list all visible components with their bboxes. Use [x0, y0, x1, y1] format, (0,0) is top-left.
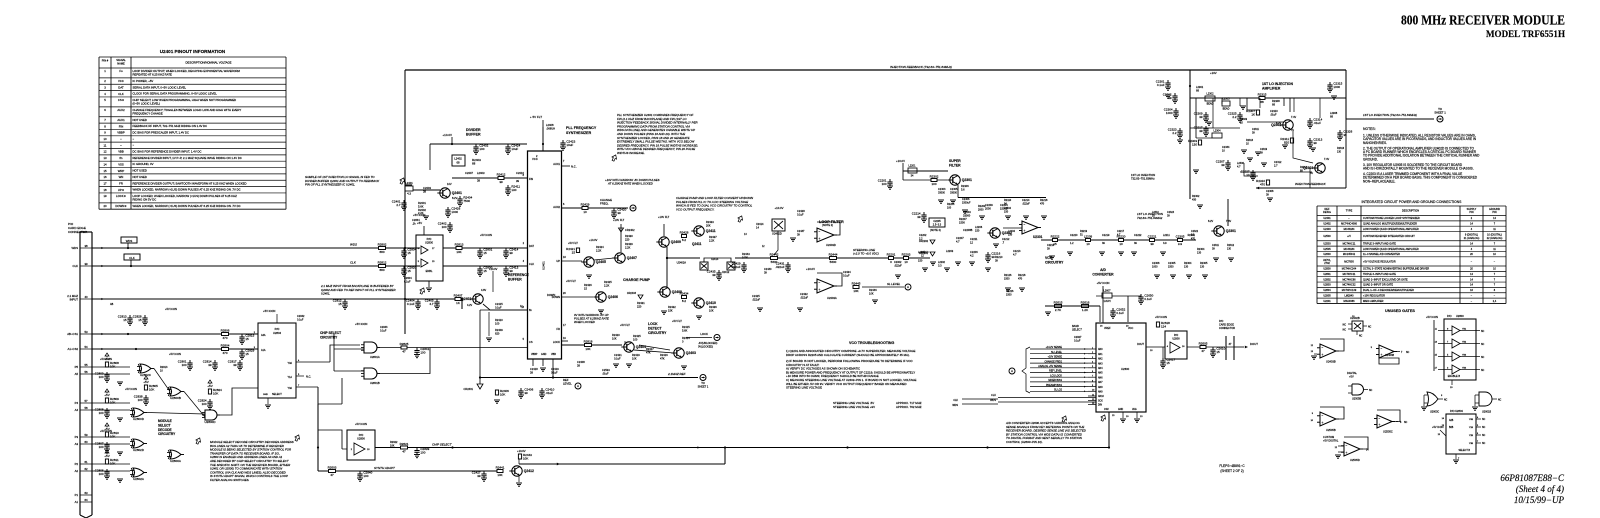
svg-text:CIRCUITRY: CIRCUITRY: [320, 335, 338, 339]
svg-text:100: 100: [99, 472, 104, 476]
svg-text:X2412: X2412: [722, 271, 730, 274]
svg-text:APPROX. 762 MHZ: APPROX. 762 MHZ: [896, 405, 922, 409]
svg-text:L2401: L2401: [405, 181, 413, 185]
svg-text:C2418: C2418: [530, 367, 538, 371]
svg-text:2.7: 2.7: [1274, 164, 1278, 167]
svg-text:150: 150: [1008, 233, 1013, 236]
svg-text:4.8V: 4.8V: [481, 289, 486, 292]
svg-text:5.6K: 5.6K: [682, 328, 688, 332]
svg-text:15: 15: [123, 318, 127, 322]
svg-text:+5V DIGITAL: +5V DIGITAL: [1323, 439, 1339, 443]
svg-text:AMPLIFIER: AMPLIFIER: [1262, 87, 1281, 91]
svg-text:U2401: U2401: [1323, 217, 1331, 220]
svg-text:C2432: C2432: [800, 292, 808, 296]
svg-text:58: 58: [84, 406, 88, 410]
svg-text:.01uF: .01uF: [602, 372, 609, 376]
svg-text:VBBP: VBBP: [117, 131, 125, 135]
svg-text:−: −: [819, 281, 821, 285]
svg-text:UP: UP: [556, 259, 560, 263]
svg-text:TRIPLE 3−INPUT AND GATE: TRIPLE 3−INPUT AND GATE: [1363, 273, 1396, 276]
svg-text:R2424: R2424: [596, 245, 604, 249]
svg-text:100: 100: [442, 225, 447, 229]
svg-text:SELECT B: SELECT B: [1458, 449, 1470, 452]
svg-text:R2203: R2203: [902, 252, 911, 256]
svg-text:P/O: P/O: [275, 327, 280, 331]
svg-text:(0−5V LOGIC LEVEL): (0−5V LOGIC LEVEL): [133, 101, 161, 105]
svg-text:DOWN∗: DOWN∗: [115, 204, 127, 208]
svg-text:U2403: U2403: [1323, 228, 1331, 231]
svg-text:2.2K: 2.2K: [604, 283, 610, 287]
svg-text:A2B: A2B: [1449, 419, 1454, 422]
svg-text:A5: A5: [75, 372, 79, 376]
svg-text:QUAD ANALOG MULTIPLEX/DEMULTIP: QUAD ANALOG MULTIPLEX/DEMULTIPLEXER: [1363, 223, 1417, 226]
svg-text:+10.0V: +10.0V: [442, 133, 452, 137]
svg-text:R2207: R2207: [959, 217, 967, 221]
svg-text:NC: NC: [1406, 352, 1410, 354]
svg-text:+5V FLT: +5V FLT: [620, 323, 630, 327]
svg-text:PLL FREQUENCY: PLL FREQUENCY: [566, 126, 597, 130]
svg-text:4.7: 4.7: [429, 302, 434, 306]
svg-text:A4A: A4A: [261, 334, 266, 337]
svg-text:C2415: C2415: [495, 302, 503, 306]
svg-text:.022uF: .022uF: [894, 264, 902, 267]
svg-text:SELECT: SELECT: [158, 423, 171, 427]
svg-text:U2800: U2800: [425, 240, 433, 244]
svg-text:CHIP SELECT: CHIP SELECT: [432, 443, 453, 447]
svg-text:L2408: L2408: [546, 123, 554, 127]
svg-text:U2803: U2803: [1323, 284, 1331, 287]
svg-text:GROUND.: GROUND.: [1363, 157, 1378, 161]
svg-text:NC: NC: [1343, 324, 1347, 326]
svg-text:REPEATED AT 6.25 KHZ RATE: REPEATED AT 6.25 KHZ RATE: [133, 72, 173, 76]
svg-text:39: 39: [1343, 133, 1347, 137]
svg-text:11: 11: [104, 143, 107, 147]
svg-text:P/O: P/O: [427, 237, 432, 241]
svg-text:13: 13: [103, 156, 107, 160]
svg-text:P/O U2804: P/O U2804: [1450, 409, 1463, 413]
svg-text:U2803C: U2803C: [1430, 411, 1439, 414]
svg-text:CLK: CLK: [991, 394, 996, 397]
svg-text:4.3: 4.3: [407, 192, 411, 196]
svg-text:59: 59: [84, 433, 88, 437]
svg-text:+: +: [1322, 421, 1324, 425]
svg-text:1000: 1000: [1152, 265, 1158, 268]
svg-text:INTEGRATED CIRCUIT POWER AN: INTEGRATED CIRCUIT POWER AND GROUND CONN…: [1362, 200, 1463, 204]
svg-text:DC BIAS FOR PRESCALER INPUT, 1: DC BIAS FOR PRESCALER INPUT, 1.4V DC: [133, 130, 190, 134]
svg-text:CONNECTOR: CONNECTOR: [1219, 327, 1235, 330]
svg-text:AB: AB: [110, 303, 114, 306]
svg-text:C2533: C2533: [602, 368, 610, 372]
svg-text:2.2K: 2.2K: [625, 245, 631, 249]
svg-text:100: 100: [947, 206, 952, 209]
svg-text:U2600: U2600: [1323, 253, 1331, 256]
svg-text:(+2.0 TO +8.0 VDC): (+2.0 TO +8.0 VDC): [853, 252, 879, 256]
svg-text:1.8UH: 1.8UH: [1103, 300, 1110, 303]
svg-text:AB−CS1: AB−CS1: [67, 332, 78, 336]
svg-text:AT 6.25KHZ RATE WHEN LOCKED: AT 6.25KHZ RATE WHEN LOCKED: [607, 182, 653, 186]
svg-text:C2219: C2219: [1102, 234, 1110, 237]
svg-text:10K: 10K: [497, 473, 502, 477]
svg-text:BEAD: BEAD: [1223, 108, 1230, 111]
svg-text:2.2K: 2.2K: [596, 248, 602, 252]
svg-text:FREQUENCY CHANGE: FREQUENCY CHANGE: [133, 111, 163, 115]
svg-text:R2420: R2420: [612, 333, 620, 337]
svg-text:CLK: CLK: [73, 264, 79, 268]
svg-text:R2804: R2804: [221, 343, 230, 347]
svg-text:WDS: WDS: [350, 243, 357, 247]
svg-text:+5V VOLTAGE REGULATOR: +5V VOLTAGE REGULATOR: [1363, 260, 1396, 263]
svg-text:DESCRIPTION: DESCRIPTION: [1402, 210, 1419, 213]
svg-text:AUX2: AUX2: [117, 108, 125, 112]
svg-text:150: 150: [975, 228, 980, 232]
svg-text:33000: 33000: [963, 213, 971, 217]
svg-text:A4: A4: [75, 408, 79, 412]
svg-text:DESCRIPTION/NOMINAL VOLTAGE: DESCRIPTION/NOMINAL VOLTAGE: [185, 60, 231, 64]
svg-text:220: 220: [625, 237, 630, 241]
svg-text:MIXER BIAS: MIXER BIAS: [1048, 379, 1062, 382]
svg-text:STEERING LINE VOLTAGE: STEERING LINE VOLTAGE: [786, 386, 822, 390]
svg-text:U2402A: U2402A: [677, 261, 687, 265]
svg-text:56: 56: [84, 370, 88, 374]
svg-text:U2402D: U2402D: [772, 232, 782, 236]
svg-text:N.C.: N.C.: [571, 165, 577, 169]
svg-text:+10.0V: +10.0V: [896, 159, 905, 163]
svg-text:15: 15: [407, 269, 411, 273]
svg-text:Y0B: Y0B: [1469, 419, 1474, 421]
svg-text:NOT USED: NOT USED: [133, 118, 147, 122]
svg-text:+5V ICON: +5V ICON: [263, 309, 275, 313]
svg-text:100: 100: [138, 398, 143, 402]
svg-text:U2500: U2500: [1323, 235, 1331, 238]
svg-text:470: 470: [1191, 237, 1196, 240]
svg-text:U2402: U2402: [1323, 223, 1331, 226]
svg-text:DESIG: DESIG: [1323, 211, 1331, 214]
svg-text:124: 124: [1161, 324, 1166, 328]
svg-text:10K: 10K: [110, 400, 115, 404]
svg-text:CIRCUITRY: CIRCUITRY: [158, 432, 176, 436]
svg-text:R2407: R2407: [454, 293, 463, 297]
svg-text:+5V ICON: +5V ICON: [165, 307, 177, 311]
svg-text:Q2402 AND FED TO REF INPUT OF: Q2402 AND FED TO REF INPUT OF PLL SYNTHE…: [321, 288, 396, 292]
svg-text:U2403B: U2403B: [1326, 360, 1336, 364]
svg-text:MC74HC32: MC74HC32: [1342, 284, 1356, 287]
svg-text:7.4V: 7.4V: [1324, 158, 1329, 161]
svg-text:1ST LO INJECTION (732.63−75: 1ST LO INJECTION (732.63−751.83MHz): [1363, 113, 1417, 117]
svg-text:NC: NC: [1481, 331, 1485, 333]
svg-text:NC: NC: [1498, 399, 1502, 401]
svg-text:AN3: AN3: [1098, 362, 1103, 365]
svg-text:1K: 1K: [1251, 112, 1255, 116]
svg-text:C2434: C2434: [843, 270, 851, 274]
svg-text:10: 10: [1119, 242, 1123, 246]
svg-text:SELECT: SELECT: [1072, 328, 1082, 331]
svg-text:MC74HC4066: MC74HC4066: [1341, 223, 1357, 226]
svg-text:+10.0V: +10.0V: [806, 267, 815, 271]
svg-text:+5V ICON: +5V ICON: [1097, 281, 1110, 285]
svg-text:U2505: U2505: [1323, 248, 1331, 251]
svg-text:R2605: R2605: [1199, 341, 1208, 345]
svg-text:AN6: AN6: [1098, 376, 1103, 379]
svg-text:+5V: +5V: [104, 454, 109, 458]
svg-text:GND: GND: [541, 353, 547, 356]
svg-text:U2600: U2600: [1121, 367, 1130, 371]
svg-text:10: 10: [904, 260, 908, 264]
svg-text:FR: FR: [557, 327, 561, 331]
svg-text:+: +: [1381, 353, 1383, 357]
svg-text:1K: 1K: [1240, 121, 1243, 124]
svg-text:R2445: R2445: [852, 281, 861, 285]
svg-text:39: 39: [499, 180, 503, 184]
svg-text:2.2: 2.2: [1232, 115, 1237, 119]
svg-text:NC: NC: [1482, 419, 1486, 421]
svg-text:L2201: L2201: [909, 165, 917, 168]
svg-text:10K: 10K: [632, 356, 637, 360]
svg-text:U2505C: U2505C: [1383, 430, 1393, 434]
svg-text:R2433: R2433: [706, 220, 714, 224]
svg-text:2702: 2702: [1324, 262, 1330, 265]
svg-text:39: 39: [509, 251, 513, 255]
svg-text:15: 15: [407, 251, 411, 255]
svg-text:39: 39: [1150, 242, 1154, 246]
svg-text:DECODE: DECODE: [158, 428, 172, 432]
svg-text:BEAD: BEAD: [1207, 103, 1214, 106]
svg-text:1K: 1K: [456, 301, 460, 305]
svg-text:10K: 10K: [585, 347, 590, 351]
svg-text:R2302: R2302: [930, 174, 939, 178]
svg-text:ENBL: ENBL: [426, 269, 433, 273]
svg-text:U2503: U2503: [1323, 242, 1331, 245]
svg-text:.01uF: .01uF: [1313, 121, 1321, 125]
svg-text:39: 39: [524, 391, 528, 395]
svg-text:C2421: C2421: [614, 353, 622, 357]
svg-text:47: 47: [402, 350, 406, 354]
svg-text:2.2K: 2.2K: [709, 238, 715, 242]
svg-text:R2806: R2806: [221, 328, 230, 332]
svg-text:150: 150: [918, 258, 923, 262]
svg-text:470: 470: [1260, 182, 1265, 186]
svg-text:100: 100: [931, 182, 936, 186]
svg-text:Y0A: Y0A: [287, 362, 292, 365]
svg-text:10: 10: [583, 210, 587, 214]
svg-text:AN0: AN0: [1098, 348, 1103, 351]
svg-text:GND: GND: [263, 394, 268, 396]
svg-text:3.9: 3.9: [1163, 242, 1167, 245]
svg-text:7.4V: 7.4V: [1291, 116, 1296, 119]
svg-text:0.1uF: 0.1uF: [551, 370, 558, 374]
svg-text:U2800: U2800: [1323, 268, 1331, 271]
svg-text:+14.2V SENSE: +14.2V SENSE: [1046, 346, 1063, 349]
svg-text:LOCK: LOCK: [700, 332, 708, 336]
svg-text:+10V FLT: +10V FLT: [658, 215, 670, 219]
svg-text:0V(LOCKED): 0V(LOCKED): [698, 345, 713, 348]
svg-text:−: −: [1381, 346, 1383, 350]
svg-text:10K: 10K: [523, 456, 528, 460]
svg-text:7.4V: 7.4V: [1226, 220, 1231, 223]
svg-text:100: 100: [202, 402, 207, 406]
svg-text:A/D: A/D: [1100, 268, 1106, 272]
svg-text:.022uF: .022uF: [752, 297, 760, 301]
svg-text:LOCK: LOCK: [553, 340, 560, 344]
svg-text:7500: 7500: [463, 199, 470, 203]
svg-text:+5V: +5V: [143, 380, 148, 384]
svg-text:DOWN: DOWN: [547, 293, 555, 297]
svg-text:Q2401: Q2401: [452, 191, 462, 195]
svg-text:AND IS HORIZONTALLY MOUNTED TO: AND IS HORIZONTALLY MOUNTED TO THE RECEI…: [1363, 167, 1474, 171]
svg-text:+5V ICON: +5V ICON: [355, 422, 367, 426]
svg-text:NON−REPLACEABLE.: NON−REPLACEABLE.: [1363, 179, 1396, 183]
svg-text:INJECTION FEEDBACK (732.63−7: INJECTION FEEDBACK (732.63−751.83MHz): [890, 65, 952, 69]
svg-text:+5V ICON: +5V ICON: [1155, 315, 1167, 319]
svg-text:732.63−751.83MHz: 732.63−751.83MHz: [1137, 216, 1163, 220]
svg-text:C2205: C2205: [933, 220, 941, 223]
svg-text:VBBP: VBBP: [531, 353, 538, 356]
svg-text:62: 62: [84, 467, 88, 471]
svg-text:BUFFER: BUFFER: [508, 278, 522, 282]
svg-text:DIGITAL: DIGITAL: [1347, 371, 1357, 375]
svg-text:U2802D: U2802D: [133, 448, 145, 452]
svg-text:U2201: U2201: [1323, 300, 1331, 303]
svg-text:.01uF: .01uF: [545, 391, 553, 395]
svg-text:VAG: VAG: [1132, 408, 1137, 411]
svg-text:B2B: B2B: [1449, 427, 1454, 429]
svg-text:1ST LO INJECTION: 1ST LO INJECTION: [1131, 173, 1155, 177]
svg-text:ENABLE B: ENABLE B: [1448, 375, 1461, 378]
svg-text:47: 47: [330, 473, 334, 477]
svg-text:C2221: C2221: [1148, 234, 1157, 238]
svg-text:680: 680: [379, 268, 384, 272]
svg-text:1500: 1500: [959, 220, 965, 224]
svg-text:R2409: R2409: [495, 328, 503, 332]
svg-text:DIN: DIN: [1098, 405, 1102, 407]
svg-text:10K: 10K: [869, 291, 874, 295]
svg-text:U2800D: U2800D: [204, 420, 216, 424]
svg-text:15: 15: [483, 251, 487, 255]
svg-text:NC: NC: [1343, 330, 1347, 332]
svg-text:(SHEET 2 OF 2): (SHEET 2 OF 2): [1220, 469, 1243, 473]
svg-text:130: 130: [511, 188, 516, 192]
svg-text:L2209: L2209: [1084, 234, 1093, 238]
svg-text:MC74HC11: MC74HC11: [1343, 273, 1356, 276]
svg-text:15: 15: [572, 250, 576, 254]
svg-text:U2403B: U2403B: [1385, 354, 1394, 357]
svg-text:1000: 1000: [1166, 111, 1173, 115]
svg-text:4.2: 4.2: [970, 253, 974, 257]
svg-text:R2436: R2436: [709, 305, 717, 309]
svg-text:C2203: C2203: [963, 210, 971, 214]
svg-text:A1: A1: [75, 500, 79, 504]
svg-text:10K: 10K: [110, 461, 115, 465]
svg-text:Q2301: Q2301: [1226, 229, 1236, 233]
svg-text:A1A: A1A: [261, 349, 266, 352]
svg-text:15: 15: [245, 337, 249, 341]
svg-text:.022uF: .022uF: [800, 295, 808, 299]
svg-text:WDS: WDS: [952, 404, 958, 407]
svg-text:+5V ICON: +5V ICON: [1432, 426, 1444, 429]
svg-text:Q2407: Q2407: [627, 256, 637, 260]
svg-text:VBB: VBB: [118, 150, 124, 154]
svg-text:+/V: +/V: [1347, 235, 1351, 238]
svg-text:47K: 47K: [660, 356, 665, 360]
svg-text:R2308: R2308: [1272, 99, 1280, 103]
svg-text:2.1MHZ REF: 2.1MHZ REF: [667, 372, 686, 376]
svg-text:+10.0V: +10.0V: [589, 238, 598, 242]
svg-text:(NOTE 2): (NOTE 2): [822, 223, 833, 227]
svg-text:U2800D: U2800D: [133, 417, 145, 421]
svg-text:U2505B: U2505B: [1326, 428, 1336, 432]
svg-text:R2415: R2415: [682, 325, 690, 329]
svg-text:−: −: [1024, 222, 1026, 226]
svg-text:+: +: [1379, 423, 1381, 427]
svg-text:AN8: AN8: [1098, 386, 1103, 389]
svg-text:FLEPS−4B891−C: FLEPS−4B891−C: [1219, 464, 1245, 468]
svg-text:Y2B: Y2B: [1469, 435, 1474, 437]
svg-text:U2505D: U2505D: [1350, 458, 1360, 462]
svg-text:CONTROL (U2600−PIN 16).: CONTROL (U2600−PIN 16).: [1006, 440, 1043, 444]
svg-text:WDS: WDS: [71, 246, 78, 250]
svg-text:U2401 PINOUT INFORMATION: U2401 PINOUT INFORMATION: [160, 49, 226, 54]
svg-text:0.1uF: 0.1uF: [380, 329, 387, 332]
svg-text:LEVEL: LEVEL: [563, 382, 572, 386]
svg-text:CS: CS: [529, 340, 533, 344]
svg-text:FREQ.: FREQ.: [600, 202, 609, 206]
svg-text:−: −: [1322, 414, 1324, 418]
svg-text:470: 470: [1018, 277, 1023, 280]
svg-text:64: 64: [84, 498, 88, 502]
svg-text:0.1uF: 0.1uF: [797, 212, 804, 216]
svg-text:NOT USED: NOT USED: [133, 169, 147, 173]
svg-text:U2800: U2800: [357, 437, 365, 441]
svg-text:L2304: L2304: [1214, 130, 1222, 133]
svg-text:P3: P3: [75, 435, 79, 439]
svg-text:.022uF: .022uF: [731, 265, 741, 269]
svg-text:LOW POWER QUAD OPERATIONAL AMP: LOW POWER QUAD OPERATIONAL AMPLIFIER: [1363, 228, 1419, 231]
svg-text:CR2403: CR2403: [627, 292, 637, 295]
svg-text:100: 100: [633, 337, 638, 341]
svg-text:fin: fin: [120, 156, 123, 160]
svg-text:SHEET 1: SHEET 1: [698, 384, 709, 388]
svg-text:2,4: 2,4: [1493, 300, 1497, 303]
svg-text:U2804: U2804: [273, 331, 281, 335]
svg-text:11−CHANNEL A/D CONVERTER: 11−CHANNEL A/D CONVERTER: [1363, 253, 1400, 256]
svg-text:CLK: CLK: [529, 262, 534, 266]
svg-text:DC BIAS FOR REFERENCE DIVIDER: DC BIAS FOR REFERENCE DIVIDER INPUT, 1.4…: [133, 150, 202, 154]
svg-text:39: 39: [1199, 115, 1203, 119]
svg-text:R2446: R2446: [869, 288, 877, 292]
svg-text:X2413: X2413: [711, 258, 719, 261]
svg-text:SYNTH ADAPT: SYNTH ADAPT: [374, 466, 396, 470]
svg-text:R2432: R2432: [668, 305, 676, 309]
svg-text:U2804: U2804: [1323, 289, 1331, 292]
svg-text:A: A: [907, 285, 909, 289]
svg-text:U2401.: U2401.: [321, 292, 331, 296]
svg-text:18: 18: [103, 188, 107, 192]
svg-text:SERIAL DATA INPUT, 0−5V LOGIC: SERIAL DATA INPUT, 0−5V LOGIC LEVEL: [133, 85, 187, 89]
svg-text:R2425: R2425: [633, 334, 641, 338]
svg-text:DOUT: DOUT: [1250, 342, 1258, 346]
svg-text:NOT USED: NOT USED: [133, 175, 147, 179]
svg-text:+5V ICON: +5V ICON: [169, 352, 181, 356]
svg-text:SL LEVEL: SL LEVEL: [1051, 351, 1063, 354]
svg-text:STEERING LINE VOLTAGE +9V: STEERING LINE VOLTAGE +9V: [833, 405, 875, 409]
svg-text:39: 39: [617, 211, 621, 215]
svg-text:39: 39: [1313, 141, 1317, 145]
svg-text:Q2412: Q2412: [524, 469, 534, 473]
svg-text:Y1B: Y1B: [1469, 427, 1474, 429]
svg-text:CLOCK FOR SERIAL DATA PROGRAMM: CLOCK FOR SERIAL DATA PROGRAMMING, 0−5V …: [133, 92, 218, 96]
svg-text:C2408: C2408: [577, 360, 585, 364]
svg-text:CONVERTER: CONVERTER: [1092, 273, 1114, 277]
svg-text:R2437: R2437: [709, 235, 717, 239]
